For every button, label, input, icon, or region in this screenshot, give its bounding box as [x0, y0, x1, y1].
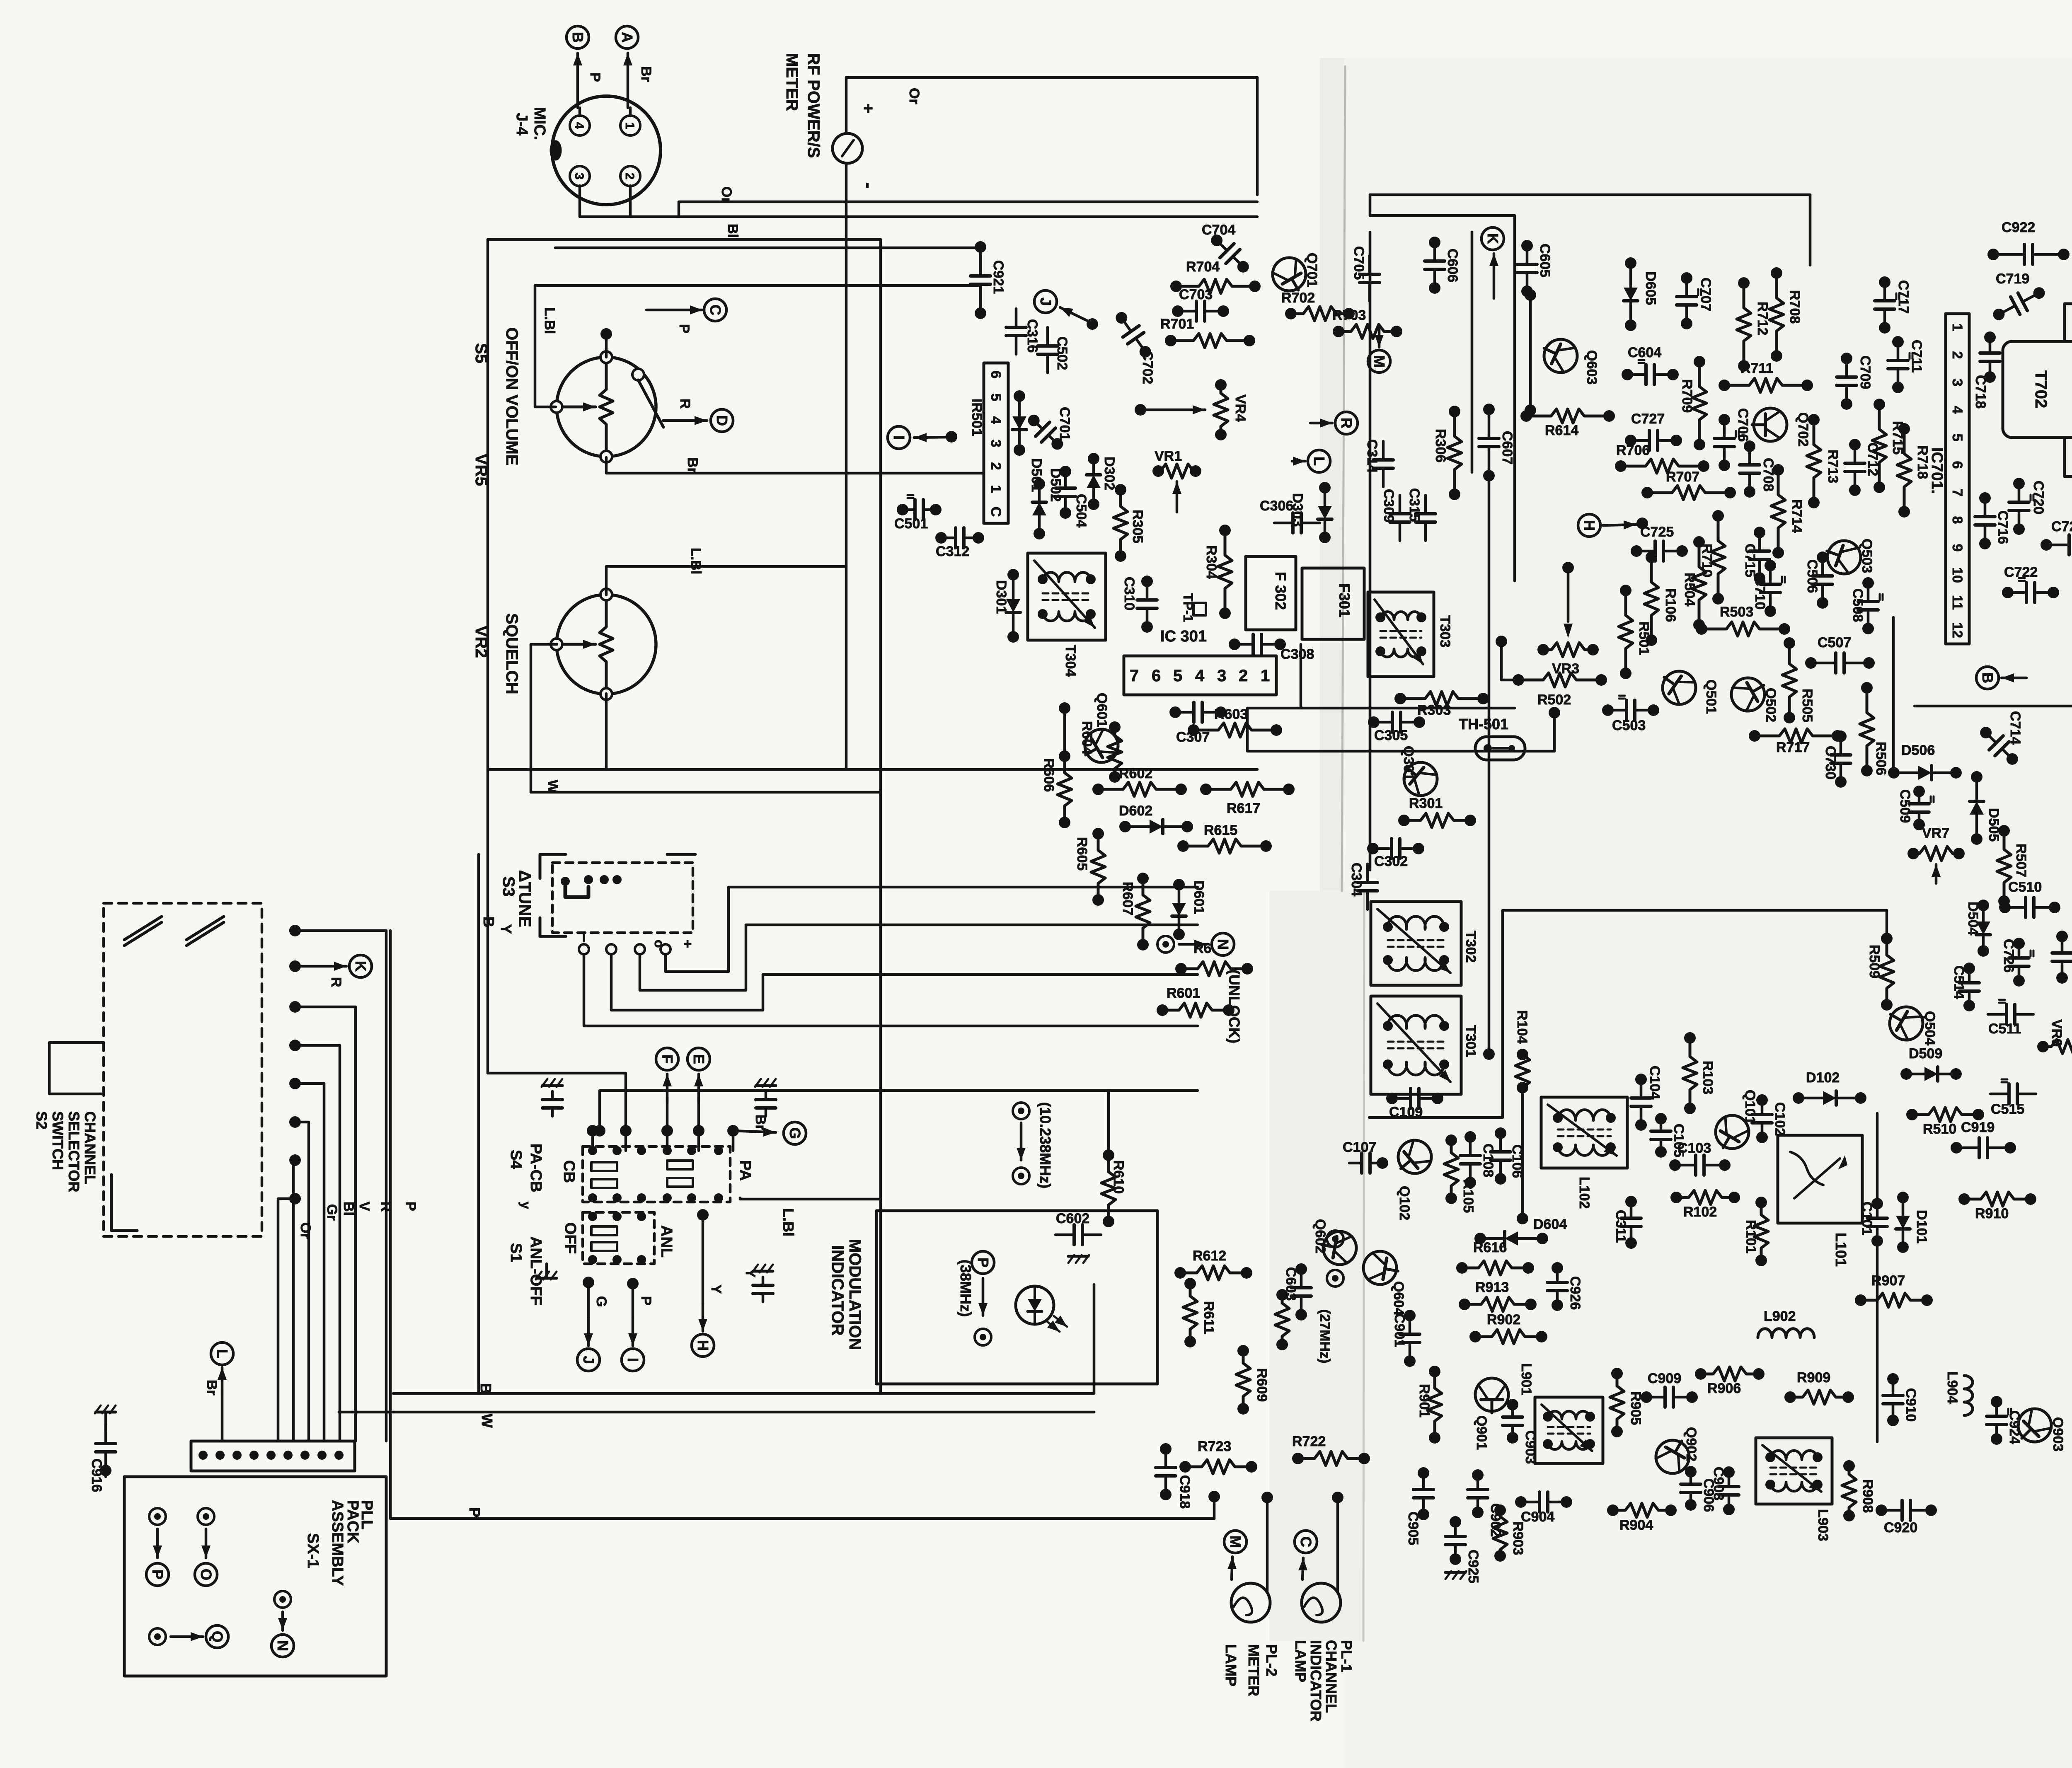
svg-text:T302: T302 [1463, 931, 1479, 963]
svg-text:LAMP: LAMP [1222, 1644, 1239, 1686]
svg-text:Q102: Q102 [1397, 1186, 1412, 1220]
svg-text:R101: R101 [1743, 1220, 1759, 1253]
svg-text:D301: D301 [993, 580, 1009, 614]
svg-text:R903: R903 [1510, 1521, 1526, 1555]
svg-text:VR9: VR9 [2049, 1019, 2065, 1047]
svg-text:(UNLOCK): (UNLOCK) [1226, 970, 1243, 1043]
svg-text:2: 2 [1949, 351, 1965, 359]
svg-text:E: E [690, 1054, 707, 1064]
svg-text:R612: R612 [1193, 1248, 1226, 1264]
svg-text:C926: C926 [1567, 1276, 1583, 1310]
svg-text:Q504: Q504 [1922, 1011, 1938, 1045]
svg-text:C711: C711 [1909, 340, 1924, 372]
svg-text:C607: C607 [1499, 431, 1515, 464]
svg-text:Q604: Q604 [1391, 1281, 1406, 1316]
svg-text:C315: C315 [1406, 488, 1422, 522]
svg-text:R106: R106 [1663, 588, 1678, 622]
svg-text:B: B [480, 917, 497, 927]
svg-text:C925: C925 [1465, 1550, 1481, 1583]
svg-text:J: J [580, 1356, 597, 1364]
svg-text:C102: C102 [1772, 1102, 1788, 1136]
svg-text:C509: C509 [1897, 789, 1913, 823]
svg-text:R722: R722 [1292, 1434, 1326, 1449]
svg-text:VR7: VR7 [1922, 825, 1949, 841]
svg-text:Bl: Bl [725, 224, 741, 238]
svg-text:L102: L102 [1576, 1177, 1592, 1209]
svg-text:C901: C901 [1392, 1313, 1407, 1347]
svg-text:3: 3 [1217, 667, 1226, 685]
svg-text:R304: R304 [1203, 545, 1219, 579]
svg-text:W: W [545, 780, 561, 793]
svg-text:R: R [677, 399, 693, 409]
svg-text:R707: R707 [1666, 469, 1699, 485]
svg-text:B: B [1979, 672, 1996, 683]
svg-text:SX-1: SX-1 [304, 1533, 322, 1568]
svg-text:5: 5 [1949, 434, 1965, 442]
svg-text:C920: C920 [1884, 1520, 1917, 1536]
svg-text:C701: C701 [1057, 407, 1072, 440]
svg-text:R714: R714 [1789, 499, 1805, 533]
svg-text:C506: C506 [1804, 559, 1820, 593]
svg-text:V: V [356, 1202, 372, 1211]
svg-text:C919: C919 [1961, 1120, 1995, 1135]
svg-text:R507: R507 [2013, 844, 2029, 877]
svg-text:K: K [1484, 233, 1501, 244]
svg-text:S1: S1 [507, 1243, 525, 1262]
svg-text:3: 3 [572, 173, 586, 180]
svg-text:SELECTOR: SELECTOR [65, 1111, 82, 1192]
svg-text:-: - [859, 182, 879, 189]
svg-text:7: 7 [1130, 667, 1139, 685]
svg-text:2: 2 [988, 462, 1004, 470]
svg-text:C715: C715 [1742, 544, 1758, 577]
svg-text:C503: C503 [1612, 718, 1646, 733]
svg-text:CB: CB [560, 1160, 578, 1183]
svg-text:C702: C702 [1140, 351, 1155, 384]
svg-text:R103: R103 [1700, 1061, 1716, 1094]
svg-text:F 302: F 302 [1272, 572, 1289, 610]
svg-text:RF POWER/S: RF POWER/S [804, 53, 823, 158]
svg-text:Q: Q [209, 1631, 226, 1642]
svg-text:N: N [274, 1640, 291, 1651]
svg-text:R505: R505 [1799, 689, 1815, 722]
svg-text:Br: Br [204, 1380, 220, 1396]
svg-text:C910: C910 [1903, 1388, 1919, 1422]
svg-text:L.Bl: L.Bl [688, 548, 704, 574]
svg-text:D505: D505 [1986, 808, 2002, 842]
svg-text:L: L [214, 1349, 231, 1358]
svg-text:9: 9 [1949, 544, 1965, 552]
svg-text:Or: Or [298, 1222, 313, 1239]
svg-text:1: 1 [988, 485, 1004, 493]
svg-text:C507: C507 [1818, 635, 1851, 651]
svg-text:C708: C708 [1760, 458, 1776, 491]
svg-text:SQUELCH: SQUELCH [503, 613, 521, 694]
svg-text:TH-501: TH-501 [1459, 716, 1508, 733]
svg-text:Q101: Q101 [1742, 1090, 1758, 1124]
svg-text:MODULATION: MODULATION [846, 1239, 864, 1350]
svg-text:C305: C305 [1374, 728, 1408, 743]
svg-text:C312: C312 [936, 544, 969, 559]
svg-text:G: G [593, 1296, 609, 1307]
svg-text:+: + [680, 940, 695, 948]
svg-text:CHANNEL: CHANNEL [1323, 1640, 1340, 1713]
svg-text:S3: S3 [499, 876, 518, 897]
svg-text:I: I [625, 1358, 641, 1362]
svg-text:MIC.: MIC. [531, 107, 548, 140]
svg-text:C309: C309 [1381, 489, 1397, 522]
svg-text:C510: C510 [2008, 879, 2042, 895]
svg-text:INDICATOR: INDICATOR [828, 1245, 847, 1336]
svg-text:R614: R614 [1545, 423, 1578, 438]
svg-text:C722: C722 [2004, 564, 2038, 580]
svg-text:R306: R306 [1433, 429, 1448, 462]
svg-text:R509: R509 [1866, 945, 1882, 978]
svg-text:R: R [328, 977, 344, 987]
svg-text:R703: R703 [1332, 307, 1366, 323]
svg-text:VR2: VR2 [472, 626, 490, 658]
svg-text:C311: C311 [1613, 1210, 1629, 1243]
svg-text:C719: C719 [1996, 271, 2029, 287]
svg-text:R717: R717 [1776, 740, 1810, 755]
svg-text:D601: D601 [1191, 880, 1207, 914]
svg-text:R711: R711 [1740, 360, 1773, 376]
svg-text:C: C [707, 305, 724, 315]
svg-text:+: + [859, 104, 877, 113]
svg-text:C709: C709 [1857, 356, 1873, 389]
svg-text:R102: R102 [1683, 1204, 1717, 1220]
svg-text:Y: Y [743, 1269, 758, 1277]
svg-text:Or: Or [906, 88, 922, 104]
svg-text:PL-2: PL-2 [1263, 1644, 1280, 1676]
svg-text:Q603: Q603 [1584, 350, 1600, 385]
svg-text:OFF/ON VOLUME: OFF/ON VOLUME [503, 327, 521, 465]
svg-text:PL-1: PL-1 [1338, 1640, 1355, 1672]
svg-text:C511: C511 [1988, 1021, 2021, 1037]
svg-text:J: J [1037, 297, 1054, 306]
svg-text:K: K [352, 961, 369, 972]
svg-text:(27MHz): (27MHz) [1317, 1309, 1333, 1363]
svg-text:R104: R104 [1514, 1010, 1530, 1044]
svg-text:P: P [466, 1507, 483, 1517]
svg-text:C602: C602 [1056, 1211, 1089, 1226]
svg-text:D506: D506 [1901, 743, 1935, 758]
svg-text:D509: D509 [1909, 1046, 1942, 1062]
svg-text:H: H [1581, 520, 1598, 531]
svg-text:6: 6 [1152, 667, 1161, 685]
svg-text:IC 301: IC 301 [1160, 628, 1207, 645]
svg-text:L.Bl: L.Bl [542, 307, 557, 334]
svg-text:I: I [891, 435, 908, 440]
svg-text:D605: D605 [1643, 271, 1658, 305]
svg-text:C908: C908 [1711, 1467, 1726, 1500]
svg-text:C501: C501 [894, 516, 928, 532]
svg-text:PA-CB: PA-CB [527, 1144, 545, 1192]
svg-text:R501: R501 [1636, 622, 1652, 655]
svg-text:METER: METER [1245, 1644, 1262, 1696]
svg-text:R913: R913 [1475, 1279, 1509, 1295]
svg-text:C504: C504 [1073, 494, 1089, 527]
svg-text:L101: L101 [1832, 1233, 1849, 1267]
svg-text:R611: R611 [1201, 1301, 1217, 1334]
svg-text:C606: C606 [1445, 249, 1460, 282]
svg-text:ASSEMBLY: ASSEMBLY [329, 1500, 346, 1586]
svg-text:VR3: VR3 [1552, 661, 1579, 677]
svg-text:R604: R604 [1079, 721, 1095, 755]
svg-text:M: M [1371, 355, 1388, 368]
svg-text:1: 1 [623, 122, 637, 129]
svg-text:11: 11 [1949, 595, 1965, 610]
svg-text:4: 4 [988, 416, 1004, 424]
svg-text:5: 5 [988, 394, 1004, 401]
svg-text:C705: C705 [1351, 246, 1367, 280]
svg-text:P: P [149, 1570, 166, 1579]
svg-text:C710: C710 [1752, 576, 1768, 609]
svg-text:R901: R901 [1416, 1384, 1432, 1417]
svg-text:R601: R601 [1167, 985, 1200, 1001]
svg-text:R: R [378, 1202, 394, 1212]
svg-text:o: o [652, 940, 667, 948]
svg-text:R301: R301 [1409, 796, 1443, 811]
svg-text:C515: C515 [1991, 1101, 2024, 1117]
svg-text:H: H [695, 1340, 712, 1351]
svg-text:OFF: OFF [562, 1222, 579, 1254]
svg-text:Br: Br [685, 457, 700, 473]
svg-text:R712: R712 [1755, 302, 1770, 335]
svg-text:R910: R910 [1975, 1206, 2009, 1221]
svg-text:C725: C725 [1640, 524, 1674, 540]
svg-text:C101: C101 [1859, 1202, 1875, 1235]
svg-text:M: M [1227, 1536, 1244, 1548]
svg-text:R616: R616 [1473, 1240, 1507, 1255]
svg-text:PACK: PACK [344, 1500, 361, 1543]
svg-text:IR501: IR501 [969, 399, 985, 436]
svg-text:R617: R617 [1227, 801, 1260, 816]
svg-text:12: 12 [1949, 622, 1965, 638]
svg-text:R713: R713 [1825, 450, 1841, 483]
svg-text:(38MHz): (38MHz) [957, 1260, 974, 1317]
svg-text:O: O [198, 1569, 215, 1580]
svg-text:4: 4 [572, 122, 586, 129]
svg-text:J-4: J-4 [513, 113, 530, 135]
svg-text:C916: C916 [89, 1458, 104, 1492]
svg-text:R909: R909 [1797, 1370, 1830, 1386]
svg-text:C905: C905 [1405, 1512, 1421, 1545]
svg-text:PA: PA [736, 1160, 754, 1181]
svg-text:P: P [676, 324, 692, 334]
svg-text:C704: C704 [1202, 222, 1235, 238]
svg-text:D302: D302 [1101, 457, 1117, 490]
svg-text:C103: C103 [1677, 1140, 1711, 1156]
svg-text:C707: C707 [1698, 278, 1714, 311]
svg-text:R906: R906 [1707, 1381, 1741, 1396]
svg-text:C310: C310 [1121, 577, 1137, 610]
svg-text:2: 2 [623, 173, 637, 180]
svg-text:S2: S2 [33, 1111, 50, 1129]
svg-text:R902: R902 [1487, 1312, 1520, 1328]
svg-text:A: A [619, 32, 636, 43]
svg-text:Q701: Q701 [1304, 253, 1320, 287]
svg-text:Q602: Q602 [1312, 1219, 1328, 1253]
svg-text:R606: R606 [1041, 758, 1057, 792]
svg-text:Br: Br [638, 66, 654, 82]
svg-text:4: 4 [1195, 667, 1205, 685]
svg-text:C107: C107 [1343, 1139, 1376, 1155]
svg-text:C730: C730 [1823, 746, 1838, 779]
svg-text:R904: R904 [1619, 1517, 1653, 1533]
svg-text:R723: R723 [1198, 1439, 1231, 1454]
svg-text:INDICATOR: INDICATOR [1307, 1640, 1324, 1722]
svg-text:F301: F301 [1336, 583, 1353, 617]
svg-text:W: W [479, 1414, 496, 1428]
svg-text:C921: C921 [990, 260, 1006, 294]
svg-text:6: 6 [988, 371, 1004, 379]
svg-text:Bl: Bl [341, 1202, 356, 1216]
svg-text:C508: C508 [1850, 588, 1866, 622]
svg-text:Y: Y [498, 924, 515, 934]
svg-text:C: C [1297, 1536, 1314, 1547]
svg-text:C106: C106 [1509, 1144, 1525, 1178]
svg-text:5: 5 [1173, 667, 1182, 685]
svg-text:T303: T303 [1437, 615, 1453, 648]
svg-text:C716: C716 [1995, 510, 2011, 544]
svg-text:R615: R615 [1204, 822, 1237, 838]
svg-text:L904: L904 [1944, 1371, 1960, 1404]
svg-text:CHANNEL: CHANNEL [82, 1111, 99, 1184]
svg-text:Y: Y [708, 1284, 724, 1294]
svg-text:L: L [1311, 457, 1328, 466]
svg-text:Q901: Q901 [1474, 1415, 1489, 1450]
svg-text:R709: R709 [1679, 379, 1695, 413]
svg-text:Q601: Q601 [1094, 693, 1110, 727]
svg-text:D101: D101 [1914, 1210, 1929, 1243]
svg-text:C720: C720 [2031, 481, 2046, 514]
svg-text:L901: L901 [1518, 1363, 1534, 1396]
svg-text:D: D [714, 415, 731, 426]
svg-text:R303: R303 [1417, 702, 1451, 718]
svg-text:T702: T702 [2032, 370, 2050, 408]
svg-text:Q503: Q503 [1859, 539, 1875, 573]
svg-text:R502: R502 [1537, 692, 1571, 708]
svg-text:L902: L902 [1764, 1308, 1796, 1324]
svg-text:S5: S5 [472, 343, 490, 363]
svg-text:L.Bl: L.Bl [780, 1208, 797, 1236]
svg-text:G: G [787, 1127, 804, 1139]
svg-text:C727: C727 [1631, 411, 1665, 427]
svg-text:R506: R506 [1873, 742, 1889, 775]
svg-text:C909: C909 [1648, 1371, 1681, 1386]
svg-text:R704: R704 [1186, 259, 1220, 275]
svg-text:B: B [477, 1383, 494, 1394]
svg-text:C304: C304 [1348, 863, 1364, 896]
svg-text:Q502: Q502 [1763, 688, 1779, 722]
svg-text:3: 3 [1949, 379, 1965, 387]
svg-text:R605: R605 [1074, 837, 1090, 871]
svg-text:Q903: Q903 [2050, 1417, 2066, 1451]
svg-text:B: B [569, 32, 586, 43]
svg-text:C314: C314 [1364, 439, 1380, 473]
svg-text:C918: C918 [1177, 1475, 1193, 1509]
svg-text:R908: R908 [1860, 1479, 1876, 1513]
svg-text:C502: C502 [1054, 336, 1070, 370]
svg-text:C316: C316 [1024, 319, 1040, 353]
svg-text:VR5: VR5 [472, 454, 490, 486]
svg-text:D602: D602 [1119, 803, 1152, 819]
svg-text:D504: D504 [1965, 902, 1981, 935]
svg-text:C308: C308 [1280, 646, 1314, 662]
svg-text:T304: T304 [1063, 645, 1078, 677]
svg-text:C726: C726 [2001, 939, 2016, 972]
svg-text:C104: C104 [1647, 1066, 1663, 1099]
svg-text:R603: R603 [1214, 706, 1248, 722]
svg-text:3: 3 [988, 440, 1004, 447]
svg-text:C604: C604 [1628, 345, 1661, 360]
svg-text:T301: T301 [1463, 1025, 1479, 1057]
svg-text:C922: C922 [2002, 220, 2035, 235]
svg-text:C712: C712 [1865, 443, 1881, 476]
svg-text:C718: C718 [1973, 375, 1988, 409]
svg-text:R602: R602 [1119, 766, 1152, 781]
svg-text:(10.238MHz): (10.238MHz) [1037, 1102, 1054, 1188]
svg-text:P: P [638, 1296, 654, 1306]
svg-text:R305: R305 [1130, 510, 1145, 543]
svg-text:Q301: Q301 [1401, 746, 1416, 780]
svg-text:D604: D604 [1533, 1217, 1567, 1232]
svg-text:D102: D102 [1806, 1070, 1840, 1086]
svg-text:6: 6 [1949, 461, 1965, 469]
svg-text:IC701.: IC701. [1928, 447, 1946, 494]
svg-text:P: P [403, 1202, 419, 1211]
svg-text:R718: R718 [1915, 445, 1930, 479]
svg-text:ΔTUNE: ΔTUNE [516, 870, 534, 927]
svg-text:1: 1 [1261, 667, 1270, 685]
svg-text:P: P [587, 73, 603, 82]
svg-text:C721: C721 [2051, 519, 2072, 535]
svg-text:TP-1: TP-1 [1181, 593, 1196, 622]
svg-text:R610: R610 [1111, 1160, 1126, 1194]
svg-text:L903: L903 [1815, 1509, 1831, 1541]
svg-text:ANL: ANL [658, 1225, 675, 1258]
svg-text:2: 2 [1239, 667, 1248, 685]
svg-text:8: 8 [1949, 516, 1965, 524]
svg-text:N: N [1215, 939, 1232, 950]
svg-text:10: 10 [1949, 567, 1965, 583]
svg-text:LAMP: LAMP [1292, 1640, 1309, 1682]
svg-text:R510: R510 [1923, 1121, 1956, 1137]
svg-text:C717: C717 [1895, 280, 1911, 314]
svg-text:7: 7 [1949, 489, 1965, 497]
svg-text:S4: S4 [507, 1150, 525, 1169]
svg-text:VR1: VR1 [1155, 448, 1182, 464]
svg-text:R708: R708 [1787, 290, 1803, 324]
svg-text:y: y [518, 1202, 533, 1209]
svg-text:1: 1 [1949, 324, 1965, 331]
svg-text:SWITCH: SWITCH [49, 1111, 66, 1170]
svg-text:R: R [1338, 418, 1355, 428]
svg-text:VR4: VR4 [1232, 394, 1248, 422]
svg-text:METER: METER [783, 53, 801, 111]
svg-text:R706: R706 [1616, 443, 1650, 458]
svg-text:R701: R701 [1160, 316, 1194, 332]
svg-text:C514: C514 [1951, 965, 1967, 999]
svg-text:R609: R609 [1254, 1368, 1270, 1402]
svg-text:C714: C714 [2007, 711, 2023, 745]
svg-text:C302: C302 [1374, 854, 1408, 869]
svg-text:F: F [659, 1055, 676, 1064]
svg-text:C706: C706 [1735, 408, 1751, 442]
svg-text:R503: R503 [1720, 604, 1753, 620]
svg-text:R504: R504 [1682, 573, 1697, 606]
